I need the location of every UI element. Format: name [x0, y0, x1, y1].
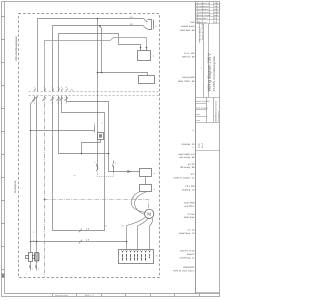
- svg-text:Zust. Anderung: Zust. Anderung: [198, 11, 210, 14]
- TOP NESTED BUS LINES: [38, 19, 148, 231]
- svg-text:Gepr. Blatt 1: Gepr. Blatt 1: [198, 17, 207, 20]
- svg-text:a: a: [196, 9, 197, 11]
- svg-text:8: 8: [58, 102, 59, 105]
- revision table texts: [196, 2, 221, 24]
- wire h2 bottom feed: [31, 241, 127, 243]
- svg-text:2: 2: [44, 86, 45, 89]
- motor M1 circle: [145, 209, 154, 218]
- svg-text:connecting : 11: connecting : 11: [179, 257, 195, 260]
- PAGE FRAME: [2, 2, 220, 297]
- svg-text:Urspr.: Urspr.: [198, 142, 201, 148]
- X2 pin labels: [122, 254, 150, 260]
- wire pin3 drop: [97, 73, 99, 170]
- svg-text:3: 3: [94, 161, 95, 164]
- pin arrow on S1 feed: [127, 170, 130, 172]
- RIGHT MARGIN ANNOTATIONS: [173, 21, 195, 272]
- junction node B2 feed: [97, 72, 99, 74]
- svg-text:1b: 1b: [192, 129, 194, 132]
- svg-text:29.08.17: 29.08.17: [214, 2, 221, 5]
- svg-text:6: 6: [66, 102, 67, 105]
- datum cell texts: [196, 100, 210, 122]
- connector X3 plug top right: [148, 20, 154, 30]
- svg-text:Bearb. Wiegand: Bearb. Wiegand: [198, 14, 210, 17]
- svg-text:M: M: [147, 212, 151, 217]
- wire gauge tick h2: [79, 240, 82, 244]
- svg-text:OPS 24 178 1 Zub-Lt: OPS 24 178 1 Zub-Lt: [173, 269, 195, 272]
- svg-text:Bl. 1: Bl. 1: [214, 17, 217, 20]
- svg-text:3: 3: [52, 86, 53, 89]
- svg-text:1 Bl.: 1 Bl.: [214, 21, 218, 24]
- svg-text:Neuerstellung: Neuerstellung: [198, 8, 208, 11]
- module B2 box: [139, 76, 155, 84]
- wire tap to B2 feed: [98, 19, 148, 76]
- wire tap from N bus: [100, 26, 102, 73]
- svg-text:Leitung ABS: Leitung ABS: [182, 76, 195, 79]
- junction node shield: [44, 199, 46, 201]
- svg-text:us : ws: us : ws: [187, 229, 195, 232]
- svg-text:1c: 1c: [192, 146, 194, 149]
- wire w4 drop: [59, 97, 109, 154]
- svg-text:6: 6: [66, 86, 67, 89]
- wire S2 to motor curve 2: [134, 192, 147, 215]
- switch S2 box: [140, 185, 152, 192]
- svg-text:Z1: Z1: [122, 225, 124, 228]
- F1 right tab: [33, 256, 35, 259]
- svg-text:ABS-23 : B6: ABS-23 : B6: [182, 56, 195, 59]
- svg-text:Zeichn.-Nr. 118 2017: Zeichn.-Nr. 118 2017: [201, 22, 204, 40]
- svg-text:Norm: Norm: [196, 119, 201, 122]
- revision table columns: [198, 2, 217, 24]
- shield line dash-dot horizontal to motor: [45, 200, 149, 210]
- junction node h153: [108, 153, 110, 155]
- wire gauge tick h1: [79, 229, 82, 233]
- wire motor drop right: [150, 218, 153, 250]
- divider line 3: [196, 150, 220, 152]
- wire C1 top: [36, 97, 38, 253]
- suppressor K2 box: [98, 133, 104, 140]
- F1 pin chevron: [29, 265, 30, 267]
- svg-text:Datum 29.06.2017: Datum 29.06.2017: [196, 100, 210, 103]
- wire K2 top pin: [94, 125, 96, 133]
- wire bus line 3: [59, 34, 141, 92]
- wire from X1 pin5 loop: [53, 97, 105, 231]
- outer border frame: [2, 2, 220, 297]
- wire motor drop mid: [138, 218, 149, 249]
- X1 pin number labels above: [34, 86, 67, 89]
- svg-text:Bearb Wiegand: Bearb Wiegand: [196, 106, 208, 109]
- wire k-coil feed: [31, 130, 95, 132]
- terminal row X1 dashed pair: [29, 92, 160, 96]
- wire N bus: [53, 26, 148, 92]
- C1 pin chevron: [35, 265, 36, 267]
- svg-text:Anpassung X2: Anpassung X2: [198, 5, 209, 8]
- wire S1-S2 link: [145, 177, 147, 185]
- svg-text:XY-PCS, front steering axle: XY-PCS, front steering axle: [212, 56, 216, 91]
- left edge fold mark: [2, 274, 5, 278]
- connector pin 3 arrow: [96, 164, 98, 171]
- svg-text:2: 2: [38, 268, 39, 271]
- svg-text:U1: U1: [105, 225, 107, 228]
- svg-text:1: 1: [34, 86, 35, 89]
- switch S1 box: [140, 169, 152, 177]
- svg-text:6: 6: [52, 102, 53, 105]
- wire motor drop left: [127, 217, 146, 249]
- svg-text:rear: rear: [190, 21, 194, 24]
- svg-text:29.06.17: 29.06.17: [214, 8, 221, 11]
- svg-text:X30-Anschlusskasten: X30-Anschlusskasten: [15, 36, 18, 61]
- X2 pin dots: [122, 251, 150, 252]
- wire C1 below: [36, 261, 38, 271]
- X1 pin symbols: [33, 89, 68, 101]
- inner bottom border line: [5, 293, 220, 295]
- connector pin A arrow: [112, 161, 113, 173]
- svg-text:Gepr: Gepr: [196, 113, 200, 116]
- svg-text:rear wiring : B6: rear wiring : B6: [179, 156, 195, 159]
- junction node w1 h2: [30, 241, 32, 243]
- svg-text:Blatt 1 v 1: Blatt 1 v 1: [85, 294, 95, 297]
- svg-text:left wiring : B6: left wiring : B6: [180, 166, 195, 169]
- svg-text:board 2: board 2: [187, 253, 195, 256]
- relay K1 box: [138, 51, 151, 61]
- title section columns: [204, 24, 209, 98]
- svg-text:4: 4: [58, 86, 59, 89]
- X2 pin arrows: [122, 250, 151, 252]
- X1 pin number labels below: [34, 102, 67, 105]
- svg-text:Potential : 40: Potential : 40: [181, 143, 195, 146]
- svg-text:Datum: Datum: [214, 11, 220, 14]
- wire from X1 pin6: [67, 97, 140, 172]
- terminal block X2: [119, 250, 154, 264]
- wire F1 below: [30, 262, 32, 271]
- svg-text:Anderung Datum Name 17: Anderung Datum Name 17: [198, 21, 201, 44]
- wire K2 bottom exit: [82, 140, 101, 154]
- svg-text:WANDERE: WANDERE: [183, 266, 195, 269]
- svg-text:5: 5: [61, 102, 62, 105]
- wire w1 left drop: [31, 97, 35, 253]
- revision table rows: [196, 5, 220, 24]
- svg-text:gn / bk: gn / bk: [188, 163, 196, 166]
- datum columns: [207, 98, 214, 123]
- title block bottom: [196, 292, 220, 294]
- capacitor C1 body: [35, 253, 40, 262]
- title block left edge: [195, 2, 197, 294]
- svg-text:wiper safety unit: wiper safety unit: [178, 153, 195, 156]
- svg-text:coupling : 13: coupling : 13: [182, 188, 196, 191]
- svg-text:WAB, PSB7 : B6: WAB, PSB7 : B6: [178, 80, 195, 83]
- svg-text:Oerlinghausen: Oerlinghausen: [217, 111, 220, 122]
- svg-text:1: 1: [32, 268, 33, 271]
- svg-text:washer pump: washer pump: [181, 25, 195, 28]
- svg-text:term 8 / 12 set: term 8 / 12 set: [180, 250, 195, 253]
- svg-text:14.07.17: 14.07.17: [214, 5, 221, 8]
- svg-text:5: 5: [61, 86, 62, 89]
- svg-text:b: b: [33, 239, 34, 242]
- junction node N tap on B2 feed: [101, 72, 103, 74]
- svg-text:05-Bremse: 05-Bremse: [14, 180, 17, 193]
- wire S2 to motor curve 1: [131, 192, 144, 213]
- K1 pin stubs: [141, 48, 147, 51]
- junction node h2 motor drop: [126, 241, 128, 243]
- svg-text:PS 1 200: PS 1 200: [185, 185, 195, 188]
- svg-text:clean fluid : B6: clean fluid : B6: [180, 29, 196, 32]
- svg-text:2: 2: [34, 102, 35, 105]
- left edge ruler ticks: [2, 17, 5, 270]
- svg-text:B 14 : 43b: B 14 : 43b: [184, 52, 195, 55]
- divider line: [196, 97, 220, 99]
- K2 hatch: [99, 134, 102, 137]
- junction node on N: [99, 25, 101, 27]
- svg-text:Name: Name: [214, 14, 219, 17]
- svg-text:earth strap: earth strap: [184, 216, 196, 219]
- wire bus line 4 shield: [45, 38, 147, 92]
- svg-text:G: G: [156, 255, 158, 258]
- bottom edge ruler ticks: [53, 294, 200, 297]
- filter F1 body: [29, 253, 33, 262]
- svg-text:Ers. f.: Ers. f.: [201, 143, 204, 148]
- svg-text:b: b: [196, 5, 197, 8]
- TITLE BLOCK: [196, 2, 220, 294]
- divider line 2: [196, 122, 220, 124]
- shield line dash-dot vertical: [44, 97, 46, 278]
- svg-text:4: 4: [133, 197, 134, 200]
- junction node w1 coil feed: [30, 130, 32, 132]
- junction node on L1: [97, 18, 99, 20]
- svg-text:wheel drive : 16: wheel drive : 16: [179, 232, 196, 235]
- svg-text:unit 230 V: unit 230 V: [184, 205, 195, 208]
- inner left border line: [4, 2, 6, 294]
- wire L1 top bus: [38, 19, 148, 92]
- svg-text:wera-b w mod: wera-b w mod: [55, 294, 68, 297]
- enclosure X30 dashed box: [19, 14, 160, 278]
- svg-text:PE bar: PE bar: [188, 213, 195, 216]
- svg-text:Korrektur Kl.15: Korrektur Kl.15: [198, 2, 209, 5]
- svg-text:brake on caution : 11: brake on caution : 11: [174, 177, 196, 180]
- K1 pin dots: [140, 47, 142, 49]
- junction node K2 exit: [81, 153, 83, 155]
- datum rows: [196, 104, 207, 117]
- connector housing dashed bracket: [98, 172, 114, 177]
- junction node C1 h2: [36, 241, 38, 243]
- F1 left tab: [26, 256, 29, 259]
- svg-text:motor feed: motor feed: [184, 202, 196, 205]
